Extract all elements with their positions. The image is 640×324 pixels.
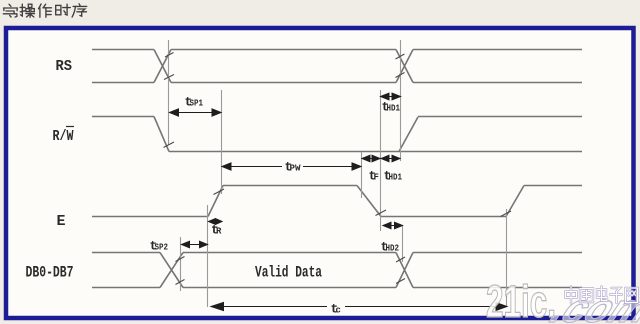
signal DB0-DB7: right bus lines: [413, 253, 582, 288]
dimension tSP2: [188, 244, 200, 246]
tick DB crossover1 top: [176, 257, 185, 262]
svg-text:21ic.: 21ic.: [486, 278, 556, 324]
glyph 操: [20, 4, 34, 17]
svg-text:HD1: HD1: [389, 173, 403, 183]
tick E rise2 bottom: [501, 211, 512, 217]
signal RS: left bus lines: [92, 50, 154, 83]
signal DB0-DB7: valid data bus lines: [183, 253, 396, 288]
dimension tHD2: [390, 225, 395, 227]
svg-text:c: c: [336, 306, 341, 316]
watermark 中国电子网: [566, 287, 638, 304]
svg-text:R/W: R/W: [53, 128, 74, 145]
svg-text:HD1: HD1: [387, 104, 401, 114]
extension line at x=506: [506, 209, 508, 307]
dimension tR: [209, 219, 216, 225]
dimension tF: [369, 158, 373, 160]
glyph 电: [597, 287, 607, 301]
extension line at x=180.5: [180, 237, 182, 291]
signal DB0-DB7: crossover 2: [396, 253, 413, 288]
signal E: low segment: [92, 216, 208, 218]
svg-text:HD2: HD2: [386, 244, 400, 254]
glyph 子: [610, 288, 622, 303]
extension line at x=400.5: [400, 40, 402, 161]
tick DB crossover2 bottom: [396, 279, 405, 284]
signal E: right high segment: [524, 185, 582, 187]
svg-text:PW: PW: [290, 164, 302, 174]
svg-text:SP1: SP1: [190, 99, 204, 109]
dimension tPW: [230, 166, 353, 168]
tick DB crossover1 bottom: [176, 280, 185, 285]
svg-text:Valid Data: Valid Data: [255, 264, 322, 282]
svg-text:DB0-DB7: DB0-DB7: [26, 264, 74, 282]
svg-text:R: R: [216, 227, 222, 237]
dimension tHD1 middle: [388, 158, 393, 160]
glyph 作: [39, 4, 52, 17]
signal RS: crossover 1: [154, 50, 171, 83]
glyph 序: [72, 4, 87, 17]
glyph 时: [56, 4, 71, 15]
glyph 国: [580, 289, 593, 303]
tick RS crossover2 bottom: [396, 73, 405, 78]
svg-text:RS: RS: [56, 58, 73, 75]
title 写操作时序 (hand-drawn glyph strokes): [3, 4, 86, 17]
signal E: rising edge: [208, 186, 223, 217]
signal E: high segment: [223, 185, 357, 187]
svg-text:E: E: [57, 213, 66, 230]
signal RS: crossover 2: [396, 50, 413, 83]
tick RS crossover1 bottom: [164, 75, 174, 80]
tick DB crossover2 top: [396, 257, 405, 262]
extension line at x=361.5: [361, 152, 363, 198]
extension line at x=221.5: [221, 90, 223, 194]
signal E: low segment 2: [381, 216, 506, 218]
svg-text:SP2: SP2: [155, 243, 169, 253]
signal DB0-DB7: left bus lines: [92, 253, 160, 288]
dimension arrows and shafts: [170, 93, 508, 311]
signal E: rising edge 2: [506, 186, 524, 217]
extension line at x=169: [168, 40, 170, 145]
dimension tc: [222, 306, 497, 308]
watermark 21ic big letters: [486, 278, 556, 324]
tick RS crossover1 top: [165, 53, 174, 58]
signal E: falling edge: [357, 186, 381, 217]
tick E fall bottom: [376, 210, 387, 216]
watermark .com slanted: [544, 286, 640, 324]
signal RS: right bus lines: [413, 50, 582, 83]
svg-text:F: F: [374, 173, 379, 183]
signal R/W: falling edge: [154, 117, 169, 152]
extension line at x=380.5: [380, 90, 382, 231]
glyph 写: [3, 4, 17, 17]
glyph 网: [626, 288, 638, 303]
waveform signal lines: [92, 50, 582, 288]
signal DB0-DB7: crossover 1: [160, 253, 183, 288]
tick RS crossover2 top: [396, 54, 405, 59]
signal R/W: right high segment: [418, 116, 582, 118]
edge tick marks: [164, 53, 512, 285]
tick R/W fall bottom: [164, 142, 175, 148]
signal R/W: rising edge: [399, 117, 418, 152]
signal R/W: high segment: [92, 116, 154, 118]
dimension tHD1 top: [388, 96, 393, 98]
signal R/W: low segment: [169, 151, 582, 153]
dimension tSP1: [178, 112, 212, 114]
extension line at x=208: [207, 205, 209, 307]
signal RS: middle bus lines: [171, 50, 396, 83]
tick E rise top: [214, 189, 225, 195]
extension line at x=402.5: [402, 226, 404, 262]
dimension extension lines: [169, 40, 507, 307]
glyph 中: [566, 287, 577, 304]
